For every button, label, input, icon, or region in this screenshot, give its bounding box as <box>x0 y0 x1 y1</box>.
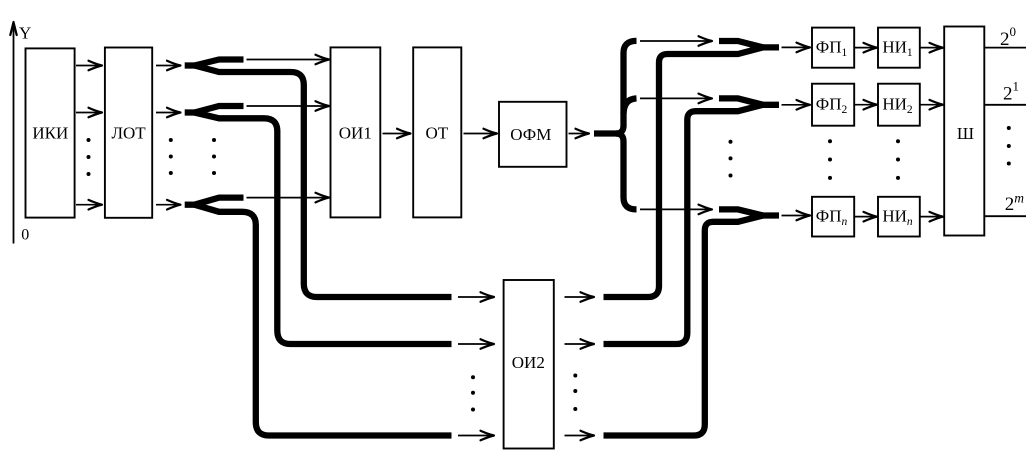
fan brace upper half <box>616 41 637 134</box>
splitter fork 1 stub <box>185 62 198 68</box>
fan brace middle prong <box>624 98 637 113</box>
splitter fork 2 stub <box>185 109 198 115</box>
block ОИ2 <box>504 280 554 449</box>
wire arrow merge 1→ФП1 <box>782 43 811 53</box>
splitter fork 2 upper prong <box>195 106 244 113</box>
wire arrow out of ОИ2 row 3 <box>565 431 595 441</box>
wire arrow ЛОТ→splitter 2 <box>156 108 181 118</box>
wire arrow НИn→Ш <box>921 212 944 222</box>
block НИ1 <box>878 28 920 68</box>
wire arrow out of ОИ2 row 2 <box>565 339 595 349</box>
wire arrow into ОИ2 row 2 <box>458 339 494 349</box>
thick wire ОИ2 row 2 up to merge fork 2 (lower prong) <box>604 105 764 344</box>
splitter fork 1 lower prong / thick wire down to ОИ2 row 1 <box>195 66 452 298</box>
wire arrow ИКИ→ЛОТ 3 <box>76 200 102 210</box>
wire arrow ИКИ→ЛОТ 2 <box>76 108 102 118</box>
dots output column <box>1007 126 1011 166</box>
wire thin splitter 2→ОИ1 with arrowhead <box>247 101 330 111</box>
block ОФМ <box>499 102 567 167</box>
wire arrow НИ1→Ш <box>921 43 944 53</box>
output wire 2^m <box>984 215 1026 217</box>
splitter fork 3 lower prong / thick wire down to ОИ2 row 3 <box>195 205 452 436</box>
dots after ЛОТ column 2 <box>212 138 216 175</box>
merge fork 3 upper prong <box>719 209 763 215</box>
thick wire ОИ2 row 1 up to merge fork 1 (lower prong) <box>604 47 764 297</box>
wire arrow out of ОИ2 row 1 <box>565 292 595 302</box>
merge fork 2 upper prong <box>719 98 763 104</box>
wire thin splitter 1→ОИ1 with arrowhead <box>247 55 330 65</box>
wire fan→merge row 3 <box>640 205 712 215</box>
wire arrow ФП2→НИ2 <box>855 100 877 110</box>
svg-text:ИКИ: ИКИ <box>32 124 68 143</box>
block ЛОТ <box>105 48 152 218</box>
svg-text:Y: Y <box>19 24 31 43</box>
block ФПn <box>812 197 854 237</box>
output wire 2^1 <box>984 104 1026 106</box>
block ИКИ <box>26 48 75 217</box>
splitter fork 1 upper prong <box>195 60 244 66</box>
block ФП1 <box>812 28 854 68</box>
merge fork 2 output stub <box>759 102 779 108</box>
splitter fork 2 lower prong / thick wire down to ОИ2 row 2 <box>195 113 452 345</box>
wire arrow ФПn→НИn <box>855 212 877 222</box>
merge fork 1 upper prong <box>719 41 763 47</box>
wire fan→merge row 1 <box>640 36 712 46</box>
fan stub from ОФМ <box>594 130 618 136</box>
splitter fork 3 upper prong <box>195 198 244 205</box>
wire arrow ИКИ→ЛОТ 1 <box>76 61 102 71</box>
dots between fan rows <box>729 140 733 178</box>
dots after ЛОТ column 1 <box>169 138 173 175</box>
block ОТ <box>413 47 461 217</box>
wire arrow merge 3→ФП3 <box>782 211 811 221</box>
dots НИ column <box>896 139 900 180</box>
dots left of ОИ2 <box>471 375 475 411</box>
svg-text:0: 0 <box>21 227 29 244</box>
svg-text:ЛОТ: ЛОТ <box>111 123 146 142</box>
wire fan→merge row 2 <box>640 94 712 104</box>
wire arrow into ОИ2 row 3 <box>458 431 494 441</box>
wire thin splitter 3→ОИ1 with arrowhead <box>247 193 330 203</box>
wire arrow ОФМ→fan <box>569 129 590 139</box>
svg-text:ОИ2: ОИ2 <box>512 353 545 372</box>
block ОИ1 <box>331 47 381 217</box>
svg-text:ОФМ: ОФМ <box>510 125 551 144</box>
dots right of ОИ2 <box>573 374 577 412</box>
splitter fork 3 stub <box>185 202 198 208</box>
wire arrow ОТ→ОФМ <box>464 129 498 139</box>
wire arrow into ОИ2 row 1 <box>458 292 494 302</box>
wire arrow ЛОТ→splitter 3 <box>156 200 181 210</box>
wire arrow ОИ1→ОТ <box>383 129 411 139</box>
thick wire ОИ2 row 3 up to merge fork 3 (lower prong) <box>604 216 764 436</box>
dots between ИКИ and ЛОТ <box>87 138 91 176</box>
axis Y line <box>13 26 15 244</box>
wire arrow merge 2→ФП2 <box>782 100 811 110</box>
dots ФП column <box>828 139 832 180</box>
axis Y arrowhead <box>10 22 16 35</box>
output wire 2^0 <box>984 47 1026 49</box>
block НИn <box>878 197 920 237</box>
wire arrow НИ2→Ш <box>921 100 944 110</box>
merge fork 1 output stub <box>759 44 779 50</box>
merge fork 3 output stub <box>759 212 779 218</box>
fan brace lower half <box>616 134 637 210</box>
svg-text:ОТ: ОТ <box>425 123 448 142</box>
svg-text:ОИ1: ОИ1 <box>339 123 372 142</box>
block ФП2 <box>812 84 854 126</box>
block НИ2 <box>878 84 920 126</box>
wire arrow ЛОТ→splitter 1 <box>156 61 181 71</box>
block Ш <box>944 27 984 236</box>
svg-text:Ш: Ш <box>957 124 974 143</box>
wire arrow ФП1→НИ1 <box>855 43 877 53</box>
